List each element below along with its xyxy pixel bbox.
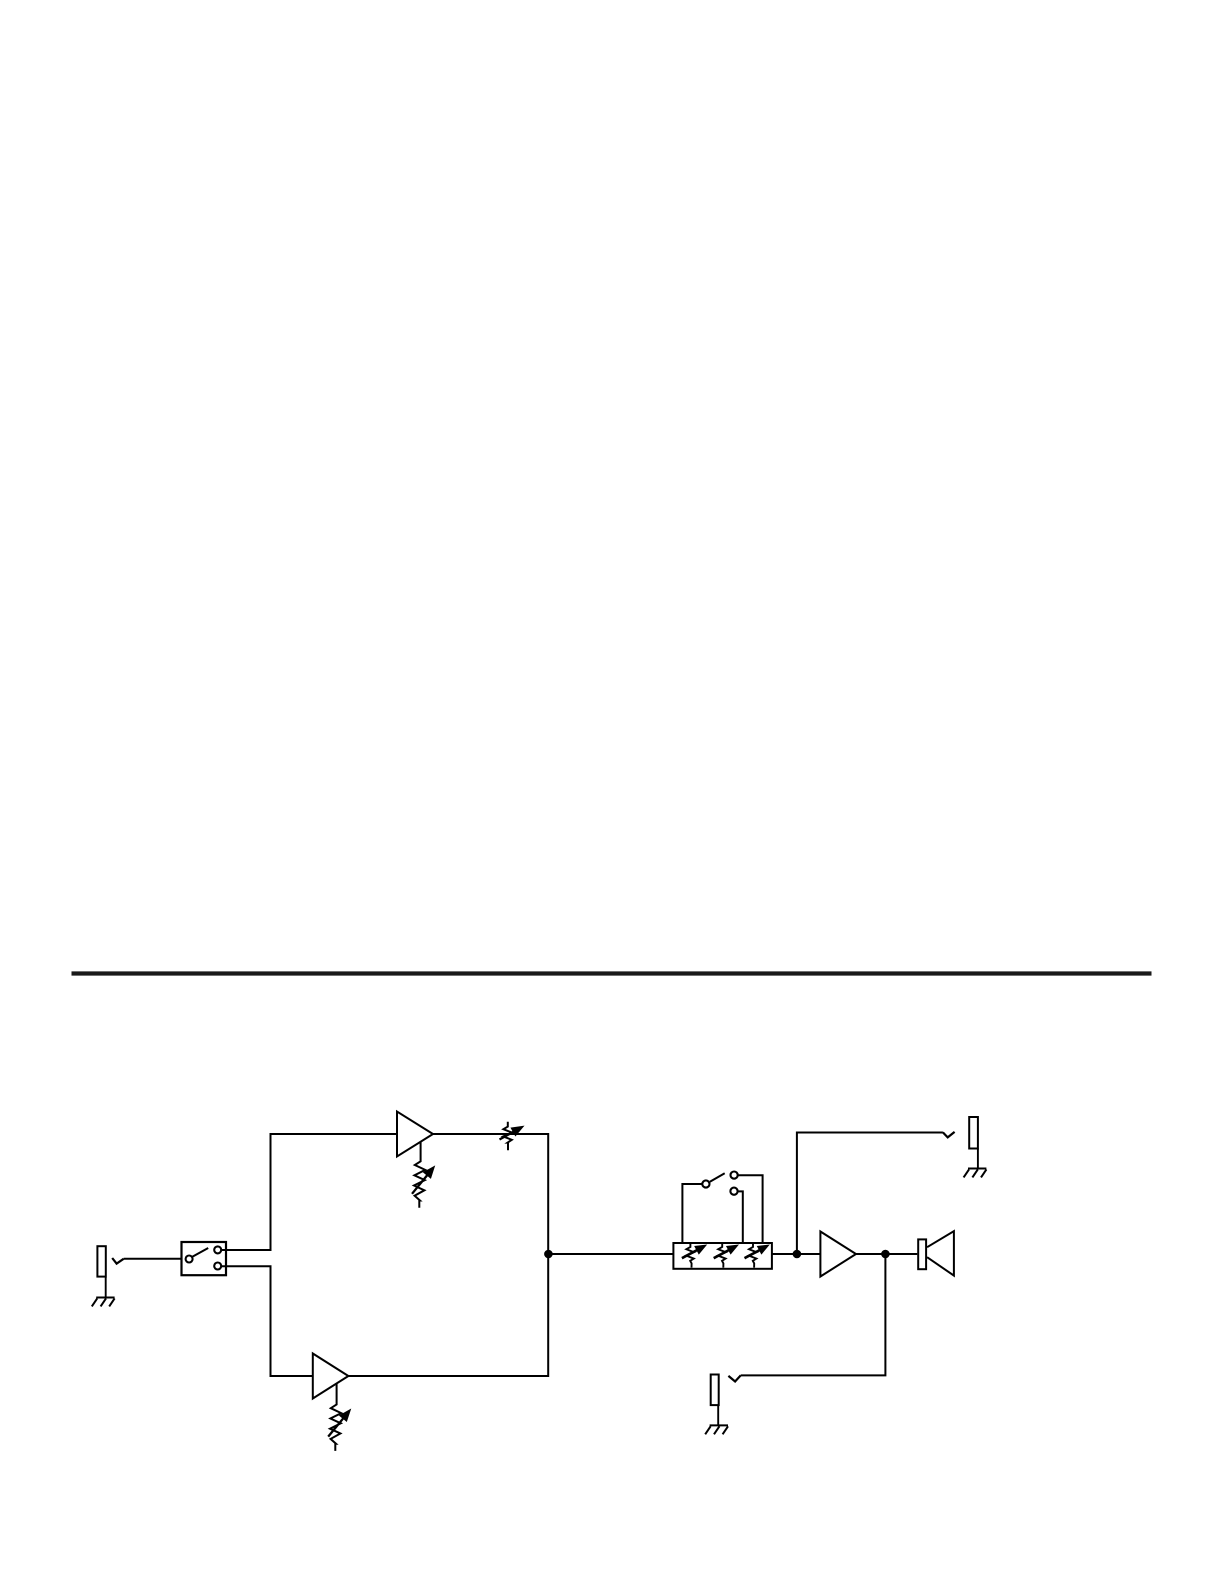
ground (headphone jack) bbox=[705, 1425, 728, 1434]
junction node 2 bbox=[793, 1250, 802, 1259]
amplifier A1 (top channel) bbox=[397, 1112, 433, 1157]
variable resistor VR1 (A1 gain) bbox=[412, 1142, 434, 1208]
wire node 2 to line out jack bbox=[797, 1133, 943, 1255]
switch S2 (tone select) bbox=[702, 1172, 737, 1195]
ground (input jack) bbox=[92, 1298, 115, 1307]
wire S1 to top rail / amp A1 input bbox=[221, 1134, 397, 1250]
variable resistor VR4 (tone 1) bbox=[682, 1243, 706, 1267]
amplifier A3 (power amp) bbox=[820, 1232, 856, 1277]
tone control block bbox=[673, 1243, 772, 1269]
wire node 2 to power amp A3 bbox=[797, 1253, 821, 1255]
headphone jack J3 bbox=[711, 1375, 741, 1426]
variable resistor VR3 (A2 gain) bbox=[328, 1384, 350, 1451]
wire S1 to bottom rail / amp A2 input bbox=[221, 1266, 313, 1376]
wire A3 to node 3 bbox=[856, 1253, 885, 1255]
wire S2 left contact to block bbox=[682, 1184, 702, 1242]
wire J1 to S1 bbox=[124, 1258, 182, 1260]
wire node 1 to tone block bbox=[548, 1253, 673, 1255]
wire A1 output to node 1 bbox=[433, 1134, 548, 1254]
variable resistor VR5 (tone 2) bbox=[714, 1243, 738, 1267]
switch S1 (input) bbox=[182, 1242, 227, 1275]
wire S2 lower contact to block bbox=[738, 1191, 743, 1242]
junction node 3 bbox=[881, 1250, 890, 1259]
variable resistor VR6 (tone 3) bbox=[745, 1243, 769, 1267]
variable resistor VR2 (inline on top rail) bbox=[500, 1122, 524, 1150]
ground (line out jack) bbox=[964, 1169, 987, 1178]
line out jack J2 bbox=[943, 1117, 978, 1169]
amplifier A2 (bottom channel) bbox=[313, 1354, 349, 1399]
junction node 1 bbox=[544, 1250, 553, 1259]
wire tone block to node 2 bbox=[772, 1253, 797, 1255]
wire node 3 to headphone jack bbox=[741, 1254, 886, 1375]
wire node 3 to speaker bbox=[885, 1253, 917, 1255]
wire S2 upper contact to block bbox=[738, 1175, 763, 1242]
wire A2 output to node 1 bbox=[348, 1254, 548, 1376]
input jack J1 bbox=[97, 1246, 123, 1297]
speaker LS1 bbox=[918, 1231, 954, 1276]
